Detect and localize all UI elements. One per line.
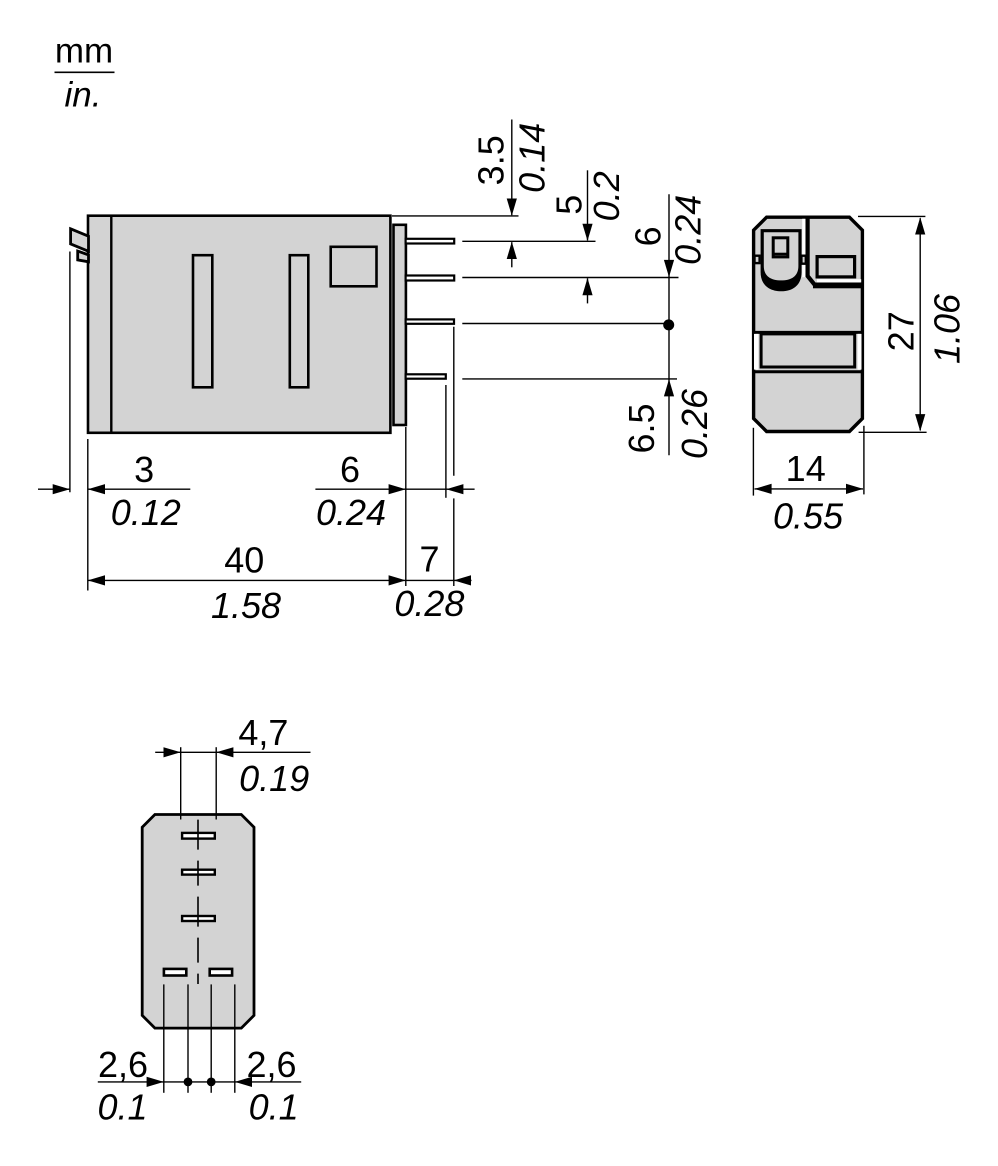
svg-text:0.1: 0.1 [97,1087,147,1128]
svg-text:0.19: 0.19 [239,758,309,799]
svg-text:3.5: 3.5 [471,135,512,185]
svg-text:27: 27 [881,311,922,351]
svg-text:0.24: 0.24 [668,195,709,265]
svg-text:7: 7 [419,539,439,580]
svg-text:0.12: 0.12 [111,492,181,533]
svg-text:40: 40 [224,540,264,581]
svg-text:1.58: 1.58 [211,585,281,626]
svg-text:6: 6 [340,449,360,490]
svg-text:0.24: 0.24 [316,492,386,533]
svg-text:5: 5 [549,195,590,215]
svg-text:mm: mm [55,32,113,71]
svg-text:0.14: 0.14 [512,123,553,193]
svg-text:in.: in. [65,75,102,114]
svg-text:6.5: 6.5 [621,403,662,453]
svg-text:0.2: 0.2 [586,171,627,221]
svg-text:0.55: 0.55 [773,496,844,537]
svg-text:2,6: 2,6 [98,1044,148,1085]
svg-text:0.28: 0.28 [394,583,464,624]
svg-text:2,6: 2,6 [246,1044,296,1085]
svg-text:1.06: 1.06 [927,293,968,364]
svg-text:4,7: 4,7 [238,712,288,753]
svg-text:6: 6 [627,226,668,246]
svg-text:0.26: 0.26 [674,388,715,459]
svg-text:14: 14 [786,448,826,489]
svg-text:3: 3 [134,449,154,490]
svg-text:0.1: 0.1 [249,1087,299,1128]
